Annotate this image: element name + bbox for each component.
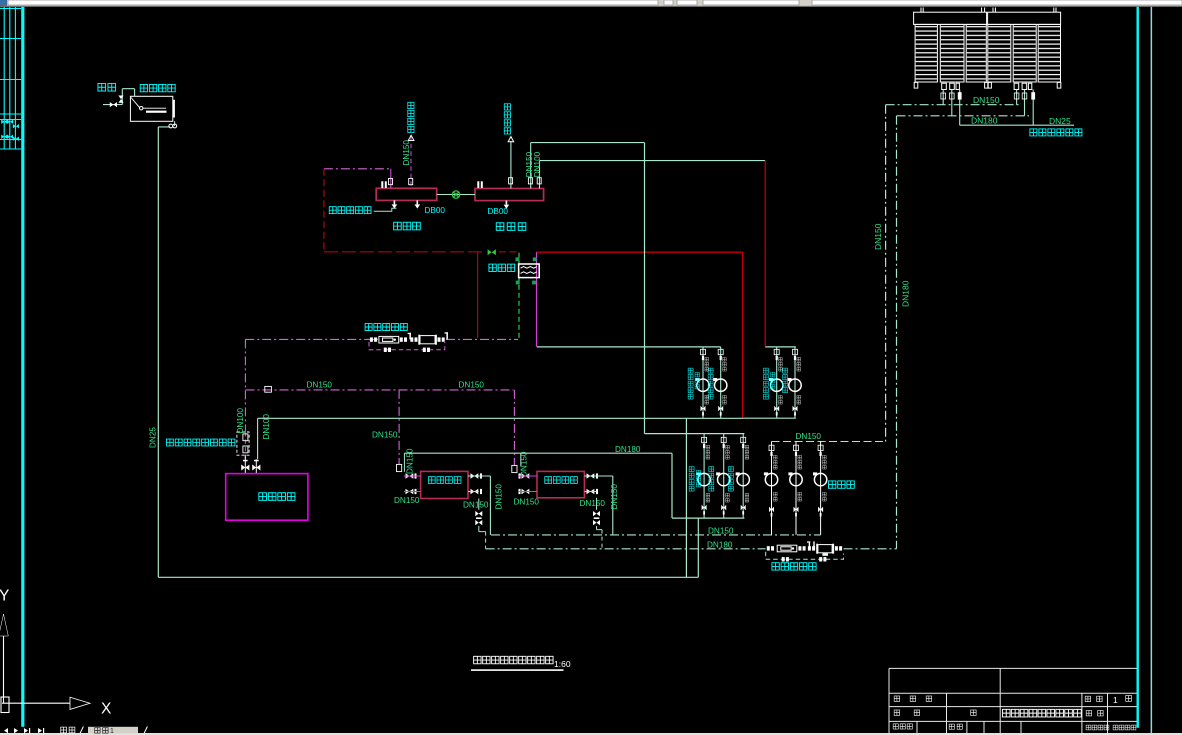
wire drop from pump suction header bbox=[697, 518, 699, 577]
tower fill bank 5 bbox=[1013, 24, 1036, 82]
svg-text:DN100: DN100 bbox=[533, 151, 542, 177]
pipe DN180 chiller outlet header bbox=[404, 452, 672, 454]
pipe pump group B header bbox=[765, 346, 796, 348]
pipe dash-dot to collector bbox=[324, 168, 391, 170]
plate heat exchanger 换热板 bbox=[519, 264, 540, 278]
pump name labels bbox=[688, 368, 787, 399]
pipe DN150 chilled riser bbox=[644, 143, 646, 434]
pipe chiller1 condenser drain bbox=[479, 499, 486, 532]
pipe DN180 condenser return bbox=[486, 548, 766, 550]
pipe bottom return main bbox=[158, 576, 698, 578]
cooling pump valves bbox=[769, 445, 823, 516]
svg-text:DN150: DN150 bbox=[514, 498, 540, 507]
svg-text:DB00: DB00 bbox=[488, 207, 509, 216]
pipe chiller2 condenser in bbox=[612, 476, 614, 535]
hot water boiler 热水锅炉 bbox=[226, 474, 308, 521]
wire to DN180 line bbox=[485, 532, 487, 549]
chiller2 inlet valves bbox=[519, 473, 530, 494]
risers green bbox=[511, 141, 765, 189]
descaler bypass pipe bbox=[369, 342, 445, 350]
tower top bar T1 bbox=[914, 12, 987, 24]
svg-text:DN25: DN25 bbox=[148, 427, 157, 448]
valve on hot main bbox=[488, 249, 496, 255]
electronic descaler instrument B bbox=[420, 336, 435, 344]
pipe DN150 cooling supply header bbox=[886, 104, 1020, 106]
pump branches P1 P2 P3 P4 bbox=[703, 347, 795, 418]
pump circles P8-P10 bbox=[764, 472, 827, 485]
chiller1 outlet stubs bbox=[468, 476, 490, 492]
pipe DN180 return cont bbox=[844, 548, 897, 550]
svg-text:1:60: 1:60 bbox=[554, 659, 571, 669]
label descaler 2 bbox=[772, 563, 816, 570]
cooling pump branches P8 P9 P10 bbox=[772, 442, 821, 535]
drawing title with underline bbox=[471, 656, 571, 671]
distributor riser 2 DN150 bbox=[531, 143, 645, 189]
tower header lines bbox=[886, 105, 1074, 549]
svg-text:1: 1 bbox=[110, 728, 114, 735]
branch valves bbox=[701, 349, 798, 415]
svg-text:DN25: DN25 bbox=[1049, 116, 1071, 126]
pipe collector-distributor link bbox=[437, 194, 475, 196]
pipe hot main cont bbox=[499, 251, 519, 253]
svg-text:DN150: DN150 bbox=[405, 448, 414, 474]
descaler pipe connectors bbox=[370, 332, 448, 342]
pipe chilled pump top header bbox=[645, 433, 745, 435]
pipe DN100 drop to pumps bbox=[764, 161, 766, 347]
svg-text:DN150: DN150 bbox=[394, 496, 420, 505]
chilled pump branches P5 P6 P7 bbox=[704, 434, 743, 518]
balancing valve bbox=[452, 191, 459, 198]
pipe DN150 riser to pumps bbox=[885, 105, 887, 442]
svg-text:DN150: DN150 bbox=[580, 499, 606, 508]
pipe HX secondary header bbox=[537, 346, 721, 348]
wire header corner drop bbox=[671, 453, 673, 518]
pipe hot water header bbox=[258, 417, 744, 419]
collector 集水器 bbox=[376, 188, 437, 200]
hot water circulating pumps bbox=[688, 347, 801, 418]
pipe DN25 long left drop bbox=[158, 127, 698, 577]
pipe DN150 chiller supply dash-dot bbox=[246, 389, 514, 391]
collector riser 2 DN150 bbox=[410, 136, 412, 188]
svg-text:1: 1 bbox=[1113, 695, 1118, 705]
tower connection stubs bbox=[943, 90, 1033, 126]
title block drawing name bbox=[1002, 709, 1081, 717]
tank inlet pipe bbox=[103, 89, 175, 127]
pipe HX primary in bbox=[518, 253, 520, 339]
svg-text:Y: Y bbox=[0, 588, 9, 605]
electronic descaler 2 instruments bbox=[777, 545, 832, 553]
svg-text:DN180: DN180 bbox=[707, 540, 733, 549]
svg-text:DN150: DN150 bbox=[459, 380, 485, 389]
labels bbox=[394, 484, 619, 510]
boiler top stubs bbox=[245, 455, 256, 473]
chiller1 drain valves bbox=[475, 511, 482, 525]
drain valves under headers bbox=[392, 200, 510, 208]
distributor riser 1 bbox=[510, 141, 512, 189]
header vent ticks bbox=[381, 181, 483, 188]
model/layout tab bar bbox=[4, 727, 147, 735]
boiler inlet valves bbox=[241, 460, 260, 471]
pipe hot supply main bbox=[537, 251, 743, 253]
pipe DN150 cooling pump suction bbox=[772, 441, 886, 443]
left riser grid bbox=[0, 7, 21, 150]
pipe hot water main bbox=[324, 251, 482, 253]
svg-text:DN150: DN150 bbox=[463, 500, 489, 509]
pipe hot return drop bbox=[323, 169, 325, 252]
svg-text:DN180: DN180 bbox=[901, 280, 911, 307]
chiller2 outlet valves bbox=[587, 473, 599, 494]
pump circles P5-P7 bbox=[697, 472, 750, 485]
labels DN150/DN180/DN25 bbox=[873, 95, 1071, 307]
label cooling pumps 冷却泵 bbox=[829, 481, 855, 488]
wire to DN180 line 2 bbox=[601, 530, 603, 549]
chiller2 inlet stubs bbox=[518, 476, 537, 492]
wire drop from hot header bbox=[685, 418, 687, 577]
pipe pump group B bottom bbox=[743, 417, 795, 419]
wire header to chiller1 bbox=[403, 453, 405, 472]
pipe drop to chiller 1 bbox=[398, 390, 400, 465]
svg-text:DN150: DN150 bbox=[402, 140, 411, 166]
pipe pump suction header bbox=[672, 517, 744, 519]
pipe DN100 boiler outlet riser bbox=[257, 418, 259, 459]
tower fill bank 3 bbox=[966, 24, 986, 82]
tower top bar T2 bbox=[988, 12, 1061, 24]
expansion tank body bbox=[130, 96, 172, 121]
svg-text:DN150: DN150 bbox=[372, 431, 398, 440]
pipe DN180 cooling return header bbox=[897, 115, 1030, 117]
chilled headers bbox=[404, 143, 795, 518]
tower fill bank 4 bbox=[988, 24, 1011, 82]
chiller unit 2 冷水机组 bbox=[537, 471, 584, 497]
svg-text:DN150: DN150 bbox=[307, 380, 333, 389]
title block table bbox=[889, 668, 1137, 735]
tower feet bbox=[914, 82, 918, 88]
svg-text:DN150: DN150 bbox=[495, 484, 504, 510]
svg-text:DN100: DN100 bbox=[262, 414, 271, 440]
distributor riser 3 DN100 bbox=[540, 161, 766, 189]
svg-text:X: X bbox=[101, 701, 112, 718]
descaler 2 bypass bbox=[766, 552, 844, 560]
pipe drop to pump header bbox=[742, 252, 744, 418]
chiller2 outlet stubs bbox=[584, 476, 612, 492]
tower fill bank 2 bbox=[940, 24, 964, 82]
tower outlet valve boxes bbox=[942, 83, 947, 89]
svg-text:DN150: DN150 bbox=[796, 432, 822, 441]
chiller1 outlet valves bbox=[471, 473, 483, 494]
tower fill bank 1 bbox=[915, 24, 937, 82]
inline valves white boxes bbox=[237, 386, 517, 472]
label boiler inlet pipe bbox=[166, 439, 234, 446]
wire header to chiller2 bbox=[520, 453, 522, 466]
chiller2 drain valves bbox=[593, 511, 600, 525]
svg-text:DN150: DN150 bbox=[708, 526, 734, 535]
pipe drop to boiler bbox=[244, 339, 246, 432]
pipe chiller1 condenser in bbox=[489, 476, 491, 535]
stub valve glyphs bbox=[941, 93, 1035, 100]
svg-text:DB00: DB00 bbox=[425, 206, 446, 215]
UCS axis icon bbox=[1, 636, 70, 713]
pipe dash-dot descaler line bbox=[245, 338, 518, 340]
distributor 分水器 bbox=[475, 189, 544, 201]
tower lifting lugs bbox=[921, 8, 1056, 13]
valve on makeup inlet bbox=[110, 102, 117, 107]
chiller unit 1 冷水机组 bbox=[421, 471, 468, 498]
collector riser 1 bbox=[390, 169, 392, 189]
pipe HX primary out bbox=[536, 252, 538, 347]
pump circles P1-P4 bbox=[695, 378, 801, 391]
riser shutoff valves bbox=[389, 178, 542, 185]
title block cell texts bbox=[893, 696, 1136, 730]
svg-text:DN180: DN180 bbox=[615, 445, 641, 454]
tank outlet valve bbox=[169, 124, 173, 128]
bottom status strip bbox=[0, 733, 1182, 735]
toolbar strip bbox=[0, 0, 1182, 7]
chiller1 inlet valves bbox=[406, 473, 417, 494]
svg-text:DN100: DN100 bbox=[236, 408, 245, 434]
svg-text:DN150: DN150 bbox=[873, 223, 883, 250]
pipe DN150 condenser supply bbox=[491, 534, 821, 536]
svg-text:DN180: DN180 bbox=[971, 116, 998, 126]
electronic descaler instrument A bbox=[379, 336, 399, 343]
labels bbox=[329, 102, 526, 230]
pipe chiller2 condenser drain bbox=[597, 498, 603, 530]
HX grip markers bbox=[516, 257, 537, 284]
pipe DN180 riser to descaler bbox=[896, 116, 898, 549]
pipe drop to descaler line bbox=[477, 252, 479, 338]
chiller1 inlet stubs bbox=[404, 476, 421, 492]
pipe drop to chiller 2 bbox=[513, 390, 515, 466]
pipe DN25 makeup water bbox=[960, 124, 1074, 126]
white mini labels on branches bbox=[705, 357, 801, 404]
tower fill bank 6 bbox=[1038, 24, 1060, 82]
label makeup-to-supply pipe bbox=[1030, 129, 1082, 136]
quick fill pipe hook bbox=[374, 208, 397, 211]
magenta verticals / dn150 dash-dot line bbox=[245, 339, 514, 466]
chilled pump valves bbox=[702, 437, 746, 514]
slats bbox=[916, 25, 1060, 82]
svg-text:DN150: DN150 bbox=[610, 484, 619, 510]
svg-text:DN150: DN150 bbox=[973, 95, 1000, 105]
